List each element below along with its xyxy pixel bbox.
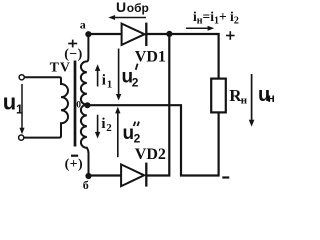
svg-text:VD1: VD1	[135, 49, 166, 66]
current arrow i2	[95, 115, 100, 139]
polarity label - (secondary bottom)	[71, 155, 78, 157]
node 0 (center tap)	[84, 102, 90, 108]
voltage arrow u1	[19, 84, 24, 134]
load voltage arrow uH	[249, 74, 255, 127]
svg-text:обр: обр	[127, 1, 149, 15]
svg-text:б: б	[83, 178, 89, 192]
transformer TV core	[74, 61, 77, 147]
svg-text:iн=i1+ i2: iн=i1+ i2	[193, 9, 239, 27]
svg-text:i: i	[101, 116, 105, 132]
svg-text:u: u	[3, 90, 16, 115]
transformer TV secondary winding (with node a lead and node b lead)	[81, 34, 89, 176]
current arrow i1	[95, 64, 100, 86]
svg-text:н: н	[241, 95, 248, 107]
svg-text:VD2: VD2	[135, 146, 166, 163]
input terminal 2 (bottom)	[19, 135, 24, 140]
svg-text:0: 0	[76, 101, 81, 111]
diode VD2	[121, 163, 146, 187]
node b (bottom secondary terminal)	[85, 173, 91, 179]
svg-text:(+): (+)	[65, 157, 84, 172]
svg-text:2: 2	[106, 122, 112, 134]
minus output terminal label	[222, 176, 229, 178]
reverse voltage arrow U obr	[108, 15, 146, 20]
voltage arrow u2''	[115, 107, 120, 157]
wire node a to VD1 anode	[88, 33, 121, 35]
resistor RH	[211, 79, 226, 113]
junction node (cathode tie point)	[166, 31, 172, 37]
svg-text:a: a	[80, 18, 86, 32]
svg-text:2: 2	[134, 131, 141, 145]
svg-text:i: i	[102, 72, 106, 88]
wire junction down to VD2 cathode	[146, 34, 169, 176]
svg-text:2: 2	[132, 76, 139, 90]
svg-text:1: 1	[16, 102, 23, 116]
svg-text:(−): (−)	[64, 47, 83, 62]
svg-text:1: 1	[107, 78, 113, 90]
wire primary top + transformer TV primary winding + wire primary bottom	[24, 77, 68, 137]
svg-text:U: U	[116, 0, 126, 15]
input terminal 1 (top)	[19, 75, 24, 80]
wire center tap to load return	[87, 105, 218, 175]
polarity label + (secondary top)	[68, 40, 77, 48]
wire node b to VD2 anode	[89, 174, 122, 176]
voltage arrow u2'	[116, 49, 121, 101]
wire VD1 cathode to load (top rail)	[146, 34, 218, 78]
svg-text:u: u	[123, 123, 135, 144]
plus output terminal label	[226, 31, 235, 40]
diode VD1	[122, 23, 147, 46]
node a	[85, 31, 91, 37]
current arrow iH	[186, 26, 214, 31]
svg-text:TV: TV	[50, 60, 71, 75]
svg-text:н: н	[268, 91, 275, 105]
